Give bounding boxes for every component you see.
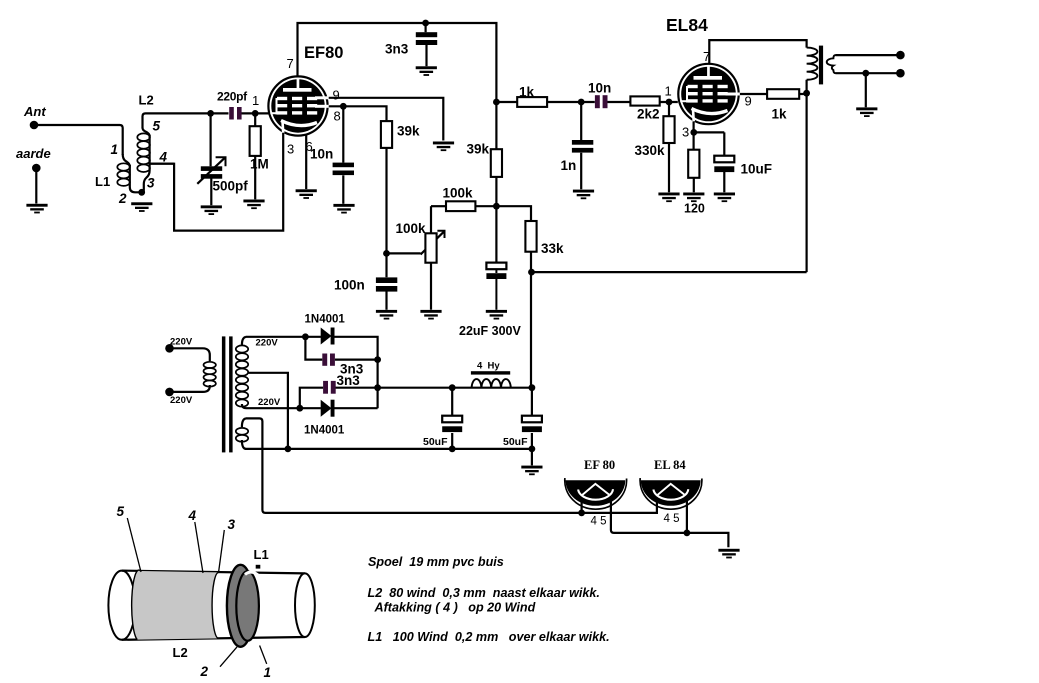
svg-text:EF 80: EF 80 — [584, 458, 615, 472]
svg-text:22uF 300V: 22uF 300V — [459, 324, 522, 338]
svg-text:2: 2 — [118, 191, 127, 206]
svg-text:500pf: 500pf — [213, 179, 249, 194]
svg-text:4: 4 — [188, 508, 197, 523]
svg-text:5: 5 — [153, 119, 161, 134]
svg-text:220V: 220V — [258, 397, 281, 408]
svg-text:3: 3 — [682, 125, 689, 140]
svg-text:33k: 33k — [541, 241, 564, 256]
svg-text:120: 120 — [684, 202, 705, 216]
svg-text:1M: 1M — [250, 157, 269, 172]
svg-text:Ant: Ant — [23, 104, 46, 119]
svg-text:3: 3 — [147, 176, 155, 191]
svg-text:4 Hy: 4 Hy — [477, 361, 500, 372]
svg-text:L1: L1 — [95, 174, 110, 189]
svg-text:Spoel 19 mm pvc buis: Spoel 19 mm pvc buis — [368, 555, 504, 569]
svg-text:10uF: 10uF — [741, 162, 773, 177]
svg-text:220V: 220V — [170, 395, 193, 406]
svg-text:220pf: 220pf — [217, 90, 248, 104]
svg-text:4: 4 — [159, 150, 168, 165]
svg-text:L1 100 Wind 0,2 mm over e: L1 100 Wind 0,2 mm over elkaar wikk. — [368, 630, 610, 644]
svg-text:1k: 1k — [519, 85, 535, 100]
svg-text:EF80: EF80 — [304, 44, 343, 62]
svg-text:1: 1 — [264, 665, 272, 680]
svg-text:5: 5 — [117, 504, 125, 519]
svg-text:1N4001: 1N4001 — [304, 425, 345, 437]
svg-text:50uF: 50uF — [503, 436, 528, 448]
svg-text:9: 9 — [333, 88, 340, 103]
svg-text:4 5: 4 5 — [664, 513, 680, 525]
svg-text:10n: 10n — [588, 81, 611, 96]
svg-text:7: 7 — [287, 56, 294, 71]
svg-text:EL84: EL84 — [666, 15, 708, 35]
svg-text:1: 1 — [252, 93, 259, 108]
svg-text:3n3: 3n3 — [337, 373, 361, 388]
svg-text:39k: 39k — [467, 142, 490, 157]
svg-text:L2: L2 — [173, 645, 188, 660]
svg-text:aarde: aarde — [16, 146, 51, 161]
svg-text:1: 1 — [111, 142, 119, 157]
svg-text:1k: 1k — [772, 107, 788, 122]
svg-text:L2: L2 — [139, 93, 154, 108]
svg-text:L2 80 wind 0,3 mm naast elk: L2 80 wind 0,3 mm naast elkaar wikk. — [368, 586, 600, 600]
svg-text:3: 3 — [228, 517, 236, 532]
svg-text:330k: 330k — [635, 143, 666, 158]
svg-text:8: 8 — [334, 109, 341, 124]
svg-text:39k: 39k — [397, 124, 420, 139]
svg-text:100n: 100n — [334, 278, 365, 293]
svg-text:220V: 220V — [256, 338, 279, 349]
svg-text:3n3: 3n3 — [385, 42, 409, 57]
svg-text:1n: 1n — [561, 158, 577, 173]
svg-text:2: 2 — [200, 664, 209, 679]
svg-text:1: 1 — [665, 84, 672, 99]
svg-text:9: 9 — [745, 94, 752, 109]
svg-text:100k: 100k — [396, 221, 427, 236]
svg-text:1N4001: 1N4001 — [305, 314, 346, 326]
svg-text:50uF: 50uF — [423, 436, 448, 448]
svg-text:100k: 100k — [443, 186, 474, 201]
svg-text:4 5: 4 5 — [591, 516, 607, 528]
svg-text:2k2: 2k2 — [637, 107, 660, 122]
svg-text:L1: L1 — [254, 547, 269, 562]
svg-text:3: 3 — [287, 142, 294, 157]
svg-text:10n: 10n — [310, 147, 333, 162]
svg-text:220V: 220V — [170, 337, 193, 348]
svg-text:Aftakking ( 4 ) op 20 Wind: Aftakking ( 4 ) op 20 Wind — [374, 601, 536, 615]
svg-text:EL 84: EL 84 — [654, 458, 686, 472]
svg-text:7: 7 — [703, 49, 710, 64]
